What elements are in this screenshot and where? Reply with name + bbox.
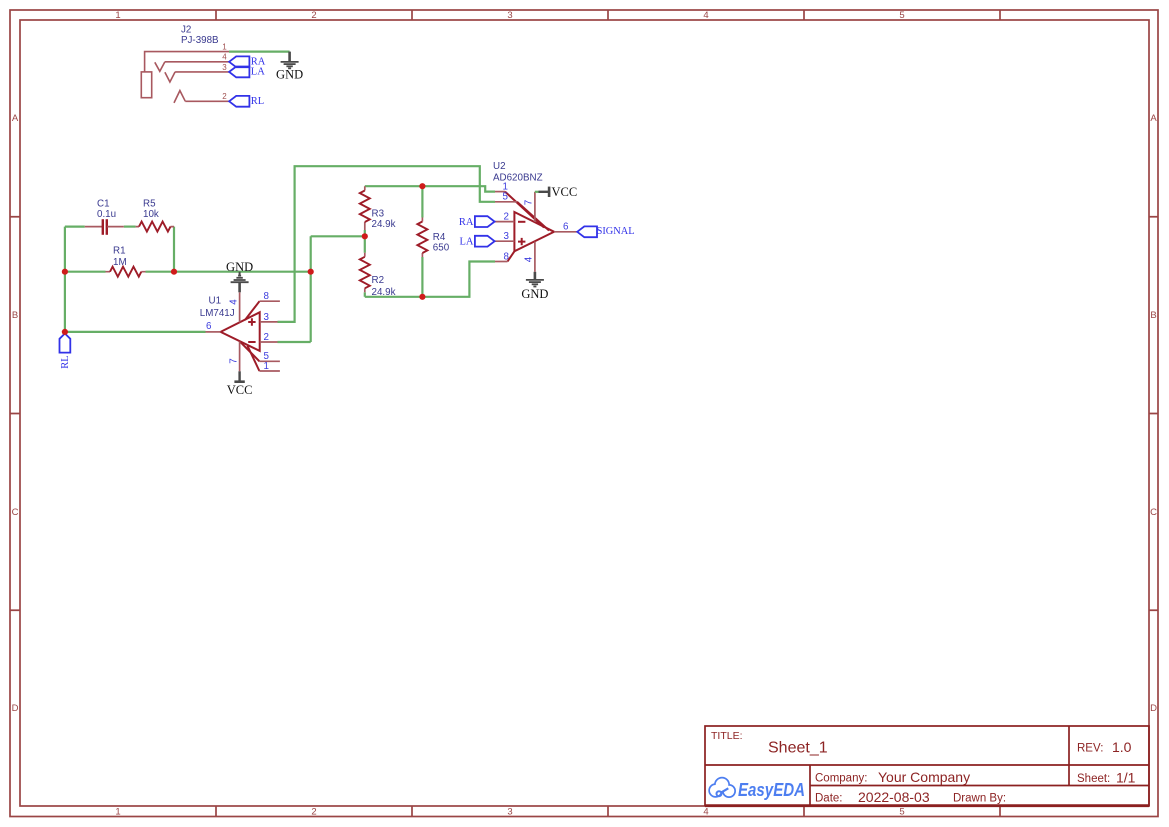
wire R4 bottom bbox=[421, 257, 423, 297]
wire U1 output row bbox=[65, 331, 206, 333]
ground (U2) bbox=[521, 272, 548, 301]
wire C1 row left bbox=[65, 226, 85, 228]
svg-text:U2: U2 bbox=[493, 161, 506, 172]
svg-text:2: 2 bbox=[504, 211, 509, 222]
svg-text:LA: LA bbox=[251, 67, 265, 78]
wire bottom row to U2 pin8 bbox=[365, 262, 495, 297]
svg-text:2022-08-03: 2022-08-03 bbox=[858, 789, 930, 805]
svg-text:D: D bbox=[12, 703, 19, 714]
svg-text:1.0: 1.0 bbox=[1112, 739, 1132, 755]
port RL (U1 input) bbox=[60, 334, 72, 369]
svg-text:6: 6 bbox=[206, 321, 212, 332]
svg-text:PJ-398B: PJ-398B bbox=[181, 35, 219, 46]
resistor R2 bbox=[364, 253, 366, 292]
svg-text:R2: R2 bbox=[372, 275, 385, 286]
svg-text:SIGNAL: SIGNAL bbox=[597, 226, 635, 237]
svg-text:C: C bbox=[12, 507, 19, 518]
wire R5 right vertical bbox=[173, 227, 175, 272]
wire R1 row left bbox=[65, 271, 106, 273]
svg-text:1: 1 bbox=[115, 10, 120, 21]
svg-text:C: C bbox=[1150, 507, 1157, 518]
svg-text:1M: 1M bbox=[113, 257, 127, 268]
svg-text:RL: RL bbox=[60, 355, 71, 368]
connector J2 pin numbers bbox=[222, 42, 227, 101]
svg-text:C1: C1 bbox=[97, 198, 110, 209]
svg-text:5: 5 bbox=[899, 807, 904, 818]
wire R2R3 junction horizontal bbox=[311, 235, 365, 237]
svg-text:GND: GND bbox=[521, 287, 548, 301]
svg-text:Date:: Date: bbox=[815, 793, 843, 805]
title block text bbox=[711, 730, 1136, 805]
resistor R4 bbox=[421, 218, 423, 258]
svg-text:3: 3 bbox=[507, 10, 512, 21]
svg-text:8: 8 bbox=[504, 252, 510, 263]
svg-text:7: 7 bbox=[524, 200, 535, 205]
wire R3 bottom to junction bbox=[364, 230, 366, 236]
svg-text:AD620BNZ: AD620BNZ bbox=[493, 173, 543, 184]
svg-text:GND: GND bbox=[226, 260, 253, 274]
wire R4 top bbox=[421, 186, 423, 217]
connector J2 body bbox=[141, 52, 229, 103]
resistor R3 bbox=[364, 186, 366, 230]
svg-text:B: B bbox=[12, 310, 18, 321]
svg-text:3: 3 bbox=[222, 63, 227, 72]
svg-text:EasyEDA: EasyEDA bbox=[738, 779, 805, 800]
frame ticks bottom bbox=[216, 807, 1000, 817]
connector J2 designator bbox=[181, 24, 219, 45]
svg-text:R1: R1 bbox=[113, 246, 126, 257]
op-amp U2 bbox=[505, 192, 554, 262]
svg-text:4: 4 bbox=[703, 807, 708, 818]
svg-text:REV:: REV: bbox=[1077, 743, 1103, 755]
svg-text:RL: RL bbox=[251, 96, 264, 107]
wire left vertical bbox=[64, 227, 66, 332]
frame ticks right bbox=[1149, 217, 1158, 611]
svg-text:3: 3 bbox=[507, 807, 512, 818]
svg-text:1: 1 bbox=[222, 42, 227, 51]
capacitor C1 bbox=[85, 219, 124, 235]
svg-text:B: B bbox=[1150, 310, 1156, 321]
svg-text:A: A bbox=[1150, 113, 1157, 124]
port RA (U2 input) bbox=[459, 216, 495, 228]
wire C1 to R5 bbox=[124, 226, 136, 228]
svg-text:2: 2 bbox=[311, 10, 316, 21]
wire R3 top to U2 pin1 bbox=[365, 186, 495, 191]
svg-text:7: 7 bbox=[229, 358, 240, 363]
wire R2 top bbox=[364, 236, 366, 253]
svg-text:J2: J2 bbox=[181, 24, 191, 35]
svg-text:1/1: 1/1 bbox=[1116, 770, 1136, 786]
svg-text:0.1u: 0.1u bbox=[97, 209, 116, 220]
svg-text:4: 4 bbox=[524, 256, 535, 262]
svg-text:R4: R4 bbox=[433, 232, 446, 243]
svg-text:5: 5 bbox=[899, 10, 904, 21]
svg-text:2: 2 bbox=[264, 332, 269, 343]
port LA bbox=[229, 67, 265, 78]
svg-text:VCC: VCC bbox=[552, 185, 578, 199]
svg-text:6: 6 bbox=[563, 222, 569, 233]
op-amp U1 pin numbers bbox=[206, 291, 270, 372]
svg-text:RA: RA bbox=[459, 217, 474, 228]
svg-text:5: 5 bbox=[503, 192, 509, 203]
frame ticks top bbox=[216, 10, 1000, 20]
svg-text:4: 4 bbox=[229, 299, 240, 305]
svg-text:650: 650 bbox=[433, 243, 450, 254]
op-amp U1 bbox=[221, 301, 260, 371]
wire U1 pin2 stub bbox=[278, 341, 311, 343]
svg-text:24.9k: 24.9k bbox=[372, 219, 396, 230]
port RL (jack) bbox=[229, 96, 264, 107]
svg-text:VCC: VCC bbox=[227, 383, 253, 397]
svg-text:LA: LA bbox=[460, 236, 474, 247]
wire vertical to U1 pin2 bbox=[310, 236, 312, 342]
svg-text:8: 8 bbox=[264, 291, 270, 302]
port SIGNAL (output) bbox=[577, 226, 634, 237]
svg-text:LM741J: LM741J bbox=[200, 308, 235, 319]
svg-text:Your Company: Your Company bbox=[878, 769, 970, 785]
wire R1 row right (GND net) bbox=[146, 271, 311, 273]
svg-text:3: 3 bbox=[504, 231, 510, 242]
frame ticks left bbox=[10, 217, 20, 611]
wire R2 bottom bbox=[364, 292, 366, 297]
EasyEDA logo bbox=[710, 778, 806, 800]
svg-text:Sheet_1: Sheet_1 bbox=[768, 740, 828, 757]
junction dots bbox=[62, 183, 426, 335]
port RA bbox=[229, 56, 266, 67]
svg-text:Company:: Company: bbox=[815, 773, 867, 785]
svg-text:GND: GND bbox=[276, 67, 303, 81]
svg-text:R3: R3 bbox=[372, 209, 385, 220]
svg-text:U1: U1 bbox=[209, 296, 222, 307]
svg-text:1: 1 bbox=[264, 361, 269, 372]
svg-text:4: 4 bbox=[703, 10, 708, 21]
svg-text:A: A bbox=[12, 113, 19, 124]
wire U1 pin3 to U2 pin5 bbox=[278, 166, 496, 322]
port LA (U2 input) bbox=[460, 236, 495, 248]
svg-text:1: 1 bbox=[115, 807, 120, 818]
power flag VCC (U2) bbox=[535, 185, 577, 199]
svg-text:10k: 10k bbox=[143, 209, 159, 220]
op-amp U2 designator bbox=[493, 161, 543, 184]
svg-text:4: 4 bbox=[222, 53, 227, 62]
svg-text:2: 2 bbox=[311, 807, 316, 818]
op-amp U1 designator bbox=[200, 296, 235, 319]
svg-text:2: 2 bbox=[222, 92, 227, 101]
resistor R1 bbox=[106, 271, 146, 273]
svg-text:Drawn By:: Drawn By: bbox=[953, 793, 1006, 805]
svg-text:Sheet:: Sheet: bbox=[1077, 773, 1110, 785]
resistor R5 bbox=[136, 226, 174, 228]
svg-text:3: 3 bbox=[264, 312, 270, 323]
power flag VCC (U1) bbox=[227, 371, 253, 397]
ground (U1, flipped) bbox=[226, 260, 253, 292]
op-amp U2 pin numbers bbox=[503, 181, 570, 262]
ground (jack) bbox=[276, 52, 303, 82]
svg-text:TITLE:: TITLE: bbox=[711, 730, 743, 742]
title block lines bbox=[705, 726, 1149, 806]
svg-text:24.9k: 24.9k bbox=[372, 287, 396, 298]
svg-text:R5: R5 bbox=[143, 198, 156, 209]
svg-text:D: D bbox=[1150, 703, 1157, 714]
wire jack pin1 to GND bbox=[229, 50, 290, 52]
